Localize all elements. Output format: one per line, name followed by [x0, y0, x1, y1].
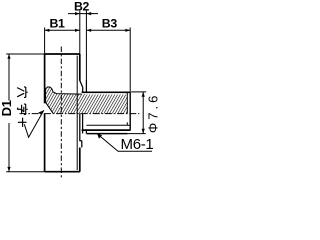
- label cross recess: kanji ana (hole), drawn as strokes, rotated 90: [17, 87, 28, 97]
- label cross recess: kanji ji (character), drawn as strokes, rotated 90: [17, 104, 28, 114]
- cross recess flank line: [45, 102, 53, 113]
- washer right face lower: [85, 130, 87, 134]
- extension line B2 right / washer face: [85, 11, 87, 80]
- hatch region B: barrel wall section: [86, 95, 127, 114]
- arrowhead B2 right: [86, 12, 91, 15]
- leader for cross recess: [24, 110, 44, 137]
- extension line B1 left: [44, 28, 46, 55]
- svg-text:Φ7.6: Φ7.6: [146, 93, 158, 133]
- break line left edge: [45, 91, 47, 102]
- leader arrowhead M6-1: [97, 134, 102, 139]
- horizontal axis centerline (dash-dot): [20, 113, 140, 115]
- extension line D1 bottom: [6, 171, 44, 173]
- thread root line lower: [86, 124, 129, 126]
- dimension line dia7.6: [142, 92, 144, 134]
- thread crest line lower (M6): [86, 133, 127, 135]
- svg-text:B1: B1: [49, 17, 65, 31]
- barrel end chamfer line: [126, 92, 128, 113]
- extension line D1 top: [6, 53, 44, 55]
- phi7.6 bottom extension continuation: [128, 133, 146, 135]
- break line of local section (wavy top boundary): [46, 87, 82, 94]
- extension line B1/B2 shared (knob right face upper): [79, 11, 81, 54]
- knob rim chamfer line: [76, 56, 78, 171]
- knob left face upper (gap at recess opening): [44, 54, 46, 103]
- arrowhead B1 right: [75, 29, 80, 32]
- svg-text:D1: D1: [0, 100, 14, 116]
- spring washer split diagonal (top): [80, 81, 83, 88]
- label cross recess: kanji juu (cross), drawn as strokes, rotated 90: [18, 118, 27, 127]
- arrowhead D1 bottom: [7, 167, 10, 172]
- svg-text:B2: B2: [74, 0, 90, 13]
- barrel top edge: [82, 91, 131, 93]
- dimension line B1: [45, 29, 80, 31]
- knob left face lower: [44, 114, 46, 172]
- arrowhead dia7.6 bottom: [142, 129, 145, 134]
- svg-text:B3: B3: [102, 17, 118, 31]
- arrowhead B2 left: [75, 12, 80, 15]
- hatch region A: knob and washer broken-out section: [46, 87, 87, 114]
- dimension line D1 (gap for text): [8, 54, 10, 101]
- arrowhead D1 top: [7, 54, 10, 59]
- washer right face (lower of ext): [85, 80, 87, 92]
- barrel bottom edge: [82, 129, 131, 131]
- spring washer lower jog: [80, 140, 82, 142]
- extension line B3 right (barrel end upper): [129, 28, 131, 93]
- arrowhead B3 right: [125, 29, 130, 32]
- knob top edge: [45, 53, 80, 55]
- spring washer lower mid line: [82, 114, 84, 134]
- arrowhead B1 left: [45, 29, 50, 32]
- dimension line B3: [86, 29, 130, 31]
- leader for M6-1: [97, 134, 152, 152]
- arrowhead dia7.6 top: [142, 92, 145, 97]
- leader arrowhead cross recess: [38, 110, 44, 114]
- spring washer split vertical (top): [82, 87, 84, 92]
- knob right face upper: [79, 54, 81, 81]
- dimension line B2: [68, 13, 98, 15]
- knob right face lower: [79, 148, 81, 172]
- knob vertical centerline (dashed): [60, 47, 62, 178]
- spring washer lower left edge: [79, 114, 81, 142]
- barrel end chamfer line lower stub: [126, 122, 128, 125]
- spring washer lower inner edge: [81, 141, 83, 148]
- barrel end face: [129, 92, 131, 130]
- extension line dia7.6 top: [131, 91, 146, 93]
- knob bottom edge: [45, 171, 80, 173]
- arrowhead B3 left: [86, 29, 91, 32]
- svg-text:M6-1: M6-1: [121, 136, 154, 153]
